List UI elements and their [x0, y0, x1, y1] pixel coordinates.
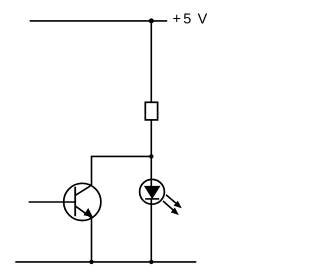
node collector branch junction	[149, 154, 153, 158]
resistor R1	[145, 102, 157, 120]
wire bottom rail	[15, 261, 196, 263]
wire from resistor to LED	[150, 120, 152, 187]
LED light arrow 2	[163, 201, 178, 214]
wire top +5V rail	[30, 20, 168, 22]
LED D1	[140, 179, 165, 204]
wire LED to bottom rail	[150, 199, 152, 262]
svg-text:+5V: +5V	[173, 12, 208, 28]
LED light arrow 1	[166, 195, 181, 208]
wire from +5V rail down to resistor	[150, 21, 152, 103]
wire emitter down	[91, 218, 93, 262]
wire base lead	[29, 201, 75, 203]
node LED junction	[149, 260, 153, 264]
node +5V junction	[149, 18, 154, 23]
node emitter junction	[89, 260, 93, 264]
wire branch to transistor collector	[92, 156, 152, 185]
transistor Q1	[64, 183, 101, 220]
